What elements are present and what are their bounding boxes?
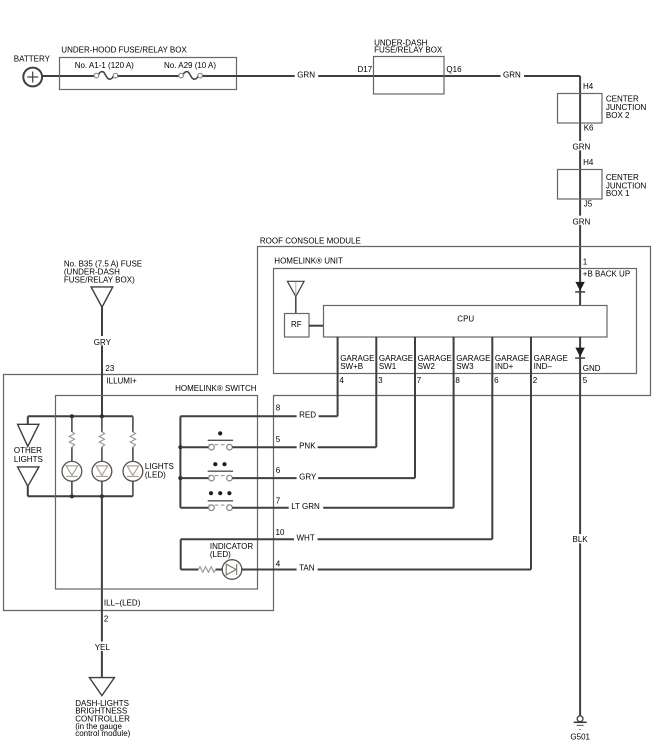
svg-text:No. A1-1 (120 A): No. A1-1 (120 A) bbox=[75, 61, 134, 70]
switch S2 bbox=[180, 462, 233, 481]
LED3 bbox=[123, 461, 143, 496]
svg-text:ILL–(LED): ILL–(LED) bbox=[104, 598, 141, 607]
top rail of lights bbox=[28, 415, 133, 417]
wire GND BLK trunk bbox=[579, 337, 581, 717]
resistor R4 indicator bbox=[198, 567, 215, 573]
other lights connector top bbox=[18, 416, 39, 446]
svg-text:5: 5 bbox=[583, 376, 588, 385]
svg-text:SW1: SW1 bbox=[379, 362, 397, 371]
center junction box 2 bbox=[558, 94, 647, 124]
svg-text:1: 1 bbox=[583, 258, 588, 267]
homelink switch box bbox=[56, 384, 258, 589]
svg-text:IND+: IND+ bbox=[495, 362, 514, 371]
svg-text:LT GRN: LT GRN bbox=[291, 502, 320, 511]
CPU box bbox=[324, 306, 608, 338]
svg-text:GRN: GRN bbox=[297, 70, 315, 79]
label GARAGE IND- bbox=[534, 354, 568, 371]
label INDICATOR (LED) bbox=[210, 542, 253, 559]
svg-text:BLK: BLK bbox=[573, 535, 589, 544]
svg-text:7: 7 bbox=[417, 376, 422, 385]
wire TAN bbox=[242, 569, 531, 571]
svg-text:8: 8 bbox=[455, 376, 460, 385]
label WHT bbox=[294, 531, 318, 542]
svg-text:3: 3 bbox=[378, 376, 383, 385]
svg-text:BATTERY: BATTERY bbox=[14, 55, 51, 64]
svg-text:4: 4 bbox=[276, 560, 281, 569]
label PNK bbox=[297, 439, 318, 450]
roof console module outline bbox=[4, 237, 651, 611]
wire LT GRN bbox=[232, 507, 453, 509]
svg-text:(LED): (LED) bbox=[210, 550, 231, 559]
wire between fuses bbox=[118, 75, 179, 77]
wire indicator branch bbox=[180, 539, 182, 569]
svg-text:IND–: IND– bbox=[534, 362, 553, 371]
label GRN segment 4 bbox=[570, 216, 592, 227]
svg-text:H4: H4 bbox=[583, 82, 594, 91]
diode D1 +B back up bbox=[575, 282, 585, 292]
label GARAGE IND+ bbox=[495, 354, 529, 371]
LED1 bbox=[62, 461, 82, 496]
svg-text:Q16: Q16 bbox=[446, 65, 462, 74]
wire fuse box to corner, GRN bbox=[203, 75, 581, 77]
label LT GRN bbox=[289, 500, 324, 511]
antenna ANT1 bbox=[287, 281, 304, 313]
SECTION-LABELS bbox=[276, 403, 324, 572]
svg-text:YEL: YEL bbox=[95, 643, 111, 652]
label GRN segment 2 bbox=[501, 69, 525, 80]
battery B1 bbox=[14, 55, 51, 87]
center junction box 1 bbox=[558, 170, 647, 200]
svg-text:control module): control module) bbox=[75, 729, 130, 738]
label DASH-LIGHTS BRIGHTNESS CONTROLLER bbox=[75, 699, 130, 738]
label GRN segment 1 bbox=[295, 69, 319, 80]
svg-text:2: 2 bbox=[533, 376, 538, 385]
other lights connector bottom bbox=[18, 467, 39, 496]
svg-text:HOMELINK® SWITCH: HOMELINK® SWITCH bbox=[175, 384, 257, 393]
svg-text:G501: G501 bbox=[570, 732, 590, 741]
label GARAGE SW2 bbox=[418, 354, 452, 371]
wire PNK bbox=[232, 446, 376, 448]
label LIGHTS (LED) bbox=[145, 462, 174, 480]
wire GRN vertical trunk bbox=[579, 76, 581, 306]
under-hood fuse/relay box bbox=[60, 45, 237, 89]
svg-text:SW2: SW2 bbox=[418, 362, 436, 371]
svg-text:GND: GND bbox=[583, 364, 601, 373]
label GRY bbox=[92, 336, 114, 347]
wire GRY to SW2 bbox=[232, 477, 415, 479]
svg-text:K6: K6 bbox=[584, 124, 594, 133]
label BLK bbox=[570, 534, 589, 544]
wire GRY / ILLUMI+ bbox=[101, 307, 103, 416]
svg-text:HOMELINK® UNIT: HOMELINK® UNIT bbox=[274, 256, 343, 265]
label RED bbox=[297, 408, 319, 419]
wire GARAGE SW+B pin 4 bbox=[337, 337, 339, 417]
svg-text:(LED): (LED) bbox=[145, 471, 166, 480]
svg-text:BOX 1: BOX 1 bbox=[606, 189, 630, 198]
homelink unit box U1 bbox=[274, 256, 637, 373]
svg-text:GRY: GRY bbox=[94, 338, 112, 347]
wire RF to CPU bbox=[309, 325, 324, 327]
wire GARAGE IND+ pin 6 bbox=[491, 337, 493, 540]
svg-text:FUSE/RELAY BOX): FUSE/RELAY BOX) bbox=[64, 276, 135, 285]
svg-text:2: 2 bbox=[104, 614, 109, 623]
svg-text:RED: RED bbox=[299, 411, 316, 420]
fuse No. A29 (10 A) bbox=[164, 61, 216, 79]
SECTION-LEFT bbox=[14, 260, 174, 738]
svg-text:4: 4 bbox=[339, 376, 344, 385]
svg-text:D17: D17 bbox=[358, 65, 373, 74]
connector triangle to dash-lights controller bbox=[89, 678, 114, 696]
svg-text:ROOF CONSOLE MODULE: ROOF CONSOLE MODULE bbox=[260, 237, 361, 246]
resistor R1 led string 1 bbox=[69, 416, 74, 461]
label TAN bbox=[297, 562, 318, 573]
svg-text:CPU: CPU bbox=[457, 315, 474, 324]
svg-text:OTHER: OTHER bbox=[14, 446, 42, 455]
wire GARAGE SW3 pin 8 bbox=[453, 337, 455, 508]
svg-text:ILLUMI+: ILLUMI+ bbox=[106, 377, 137, 386]
svg-text:UNDER-HOOD FUSE/RELAY BOX: UNDER-HOOD FUSE/RELAY BOX bbox=[61, 45, 187, 54]
wire battery to under-hood box bbox=[42, 75, 94, 77]
label GRY bbox=[297, 470, 319, 481]
svg-text:6: 6 bbox=[276, 466, 281, 475]
wire GARAGE SW2 pin 7 bbox=[414, 337, 416, 478]
svg-text:10: 10 bbox=[276, 528, 285, 537]
svg-text:LIGHTS: LIGHTS bbox=[14, 455, 43, 464]
svg-text:7: 7 bbox=[276, 496, 281, 505]
indicator LED D3 bbox=[222, 560, 242, 580]
svg-text:BOX 2: BOX 2 bbox=[606, 111, 630, 120]
svg-text:No. A29 (10 A): No. A29 (10 A) bbox=[164, 61, 216, 70]
label YEL bbox=[92, 642, 112, 652]
svg-text:GRY: GRY bbox=[299, 472, 317, 481]
LED2 bbox=[92, 461, 112, 496]
junction dots on rails bbox=[70, 414, 74, 418]
label GARAGE SW1 bbox=[379, 354, 413, 371]
RF box bbox=[285, 314, 310, 338]
svg-text:GRN: GRN bbox=[573, 217, 591, 226]
fuse No. A1-1 (120 A) bbox=[75, 61, 134, 79]
SECTION-TOP bbox=[14, 38, 647, 305]
svg-text:8: 8 bbox=[276, 403, 281, 412]
ground G501 bbox=[570, 716, 590, 741]
wire RED bbox=[180, 415, 337, 417]
switch S3 bbox=[180, 491, 233, 510]
svg-text:5: 5 bbox=[276, 435, 281, 444]
wire ILL-(LED) YEL bbox=[101, 496, 103, 677]
label OTHER LIGHTS bbox=[14, 446, 43, 464]
svg-text:+B BACK UP: +B BACK UP bbox=[583, 270, 630, 279]
SECTION-MODULE bbox=[4, 237, 651, 742]
svg-text:RF: RF bbox=[291, 320, 302, 329]
connector triangle from B35 fuse bbox=[91, 287, 113, 307]
SECTION-SWITCH bbox=[56, 384, 532, 589]
label No. B35 fuse bbox=[64, 260, 142, 285]
label GRN segment 3 bbox=[570, 141, 592, 152]
resistor R2 led string 2 bbox=[99, 416, 104, 461]
switch S1 bbox=[180, 431, 233, 450]
svg-text:6: 6 bbox=[494, 376, 499, 385]
wire GARAGE IND- pin 2 bbox=[530, 337, 532, 570]
svg-text:FUSE/RELAY BOX: FUSE/RELAY BOX bbox=[374, 46, 443, 55]
svg-text:PNK: PNK bbox=[299, 441, 316, 450]
resistor R3 led string 3 bbox=[130, 416, 135, 461]
svg-text:TAN: TAN bbox=[299, 564, 315, 573]
svg-text:SW+B: SW+B bbox=[340, 362, 363, 371]
label GARAGE SW3 bbox=[456, 354, 490, 371]
svg-text:WHT: WHT bbox=[297, 534, 315, 543]
wire GARAGE SW1 pin 3 bbox=[375, 337, 377, 447]
svg-text:GRN: GRN bbox=[503, 70, 521, 79]
svg-text:SW3: SW3 bbox=[456, 362, 474, 371]
svg-text:H4: H4 bbox=[583, 158, 594, 167]
bottom rail of lights bbox=[28, 495, 133, 497]
svg-text:GRN: GRN bbox=[573, 143, 591, 152]
switch common rail bbox=[179, 416, 181, 507]
label GARAGE SW+B bbox=[340, 354, 374, 371]
under-dash fuse/relay box bbox=[374, 38, 445, 94]
diode D2 GND bbox=[575, 348, 585, 359]
wire WHT bbox=[181, 538, 493, 540]
svg-text:J5: J5 bbox=[584, 200, 593, 209]
svg-text:23: 23 bbox=[105, 364, 114, 373]
